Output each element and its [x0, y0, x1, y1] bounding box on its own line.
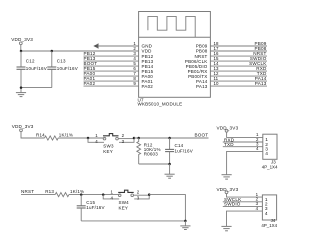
- svg-text:C12: C12: [26, 59, 35, 64]
- svg-text:R13: R13: [45, 189, 54, 194]
- svg-text:10: 10: [214, 81, 219, 86]
- svg-text:R14: R14: [36, 132, 45, 137]
- svg-text:PA02: PA02: [84, 81, 96, 86]
- svg-text:4: 4: [265, 211, 268, 217]
- svg-text:SW3: SW3: [103, 144, 114, 149]
- svg-text:WKB5010_MODULE: WKB5010_MODULE: [138, 102, 183, 107]
- svg-text:C15: C15: [86, 200, 95, 205]
- svg-text:VDD_3V3: VDD_3V3: [11, 37, 33, 42]
- svg-text:1K/1%: 1K/1%: [59, 132, 73, 137]
- svg-text:KEY: KEY: [119, 206, 129, 211]
- svg-text:1uF/16V: 1uF/16V: [175, 149, 193, 154]
- svg-text:C14: C14: [175, 143, 184, 148]
- svg-text:4P_1X4: 4P_1X4: [261, 223, 277, 228]
- svg-text:R0603: R0603: [144, 152, 159, 157]
- svg-text:KEY: KEY: [103, 149, 113, 154]
- svg-text:BOOT: BOOT: [194, 133, 208, 138]
- svg-text:4: 4: [265, 151, 268, 157]
- svg-text:PA13: PA13: [255, 81, 267, 86]
- svg-text:VDD_3V3: VDD_3V3: [12, 124, 34, 129]
- svg-text:4P_1X4: 4P_1X4: [262, 164, 278, 169]
- svg-text:C13: C13: [57, 59, 66, 64]
- svg-text:PA02: PA02: [142, 84, 154, 89]
- svg-text:PA13: PA13: [196, 84, 208, 89]
- svg-text:SWDIO: SWDIO: [224, 202, 241, 207]
- svg-text:10uF/16V: 10uF/16V: [26, 66, 47, 71]
- svg-text:NRST: NRST: [21, 189, 34, 194]
- svg-text:1K/1%: 1K/1%: [70, 189, 84, 194]
- svg-text:10uF/16V: 10uF/16V: [57, 66, 78, 71]
- svg-text:SW4: SW4: [119, 200, 130, 205]
- svg-text:1uF/16V: 1uF/16V: [86, 205, 104, 210]
- svg-text:TXD: TXD: [224, 142, 234, 147]
